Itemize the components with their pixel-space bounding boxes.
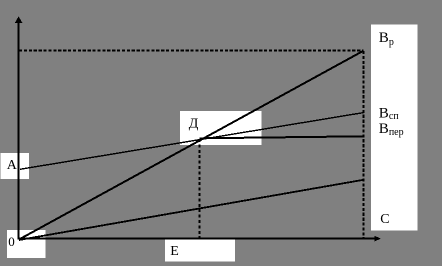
dashed guide vertical at D down to E	[198, 139, 200, 238]
y-axis arrowhead	[15, 16, 22, 23]
line Bsp (total cost) from A through D	[20, 113, 364, 170]
x-axis	[19, 238, 376, 240]
legend box right (white)	[371, 25, 417, 231]
line C (variable cost) from origin	[19, 180, 364, 240]
label box E (white)	[165, 239, 235, 262]
svg-text:Е: Е	[170, 244, 179, 259]
svg-text:0: 0	[8, 234, 15, 249]
line Bper (horizontal from D)	[200, 136, 364, 138]
svg-text:А: А	[7, 158, 18, 173]
dashed guide horizontal at Bp level	[19, 50, 364, 52]
x-axis arrowhead	[375, 236, 381, 241]
label box 0 (white)	[7, 230, 46, 258]
line Bp (revenue) from origin to top right	[19, 51, 363, 240]
label box A (white)	[1, 153, 30, 179]
svg-text:С: С	[380, 212, 389, 227]
dashed guide vertical at C	[362, 51, 364, 238]
y-axis	[18, 22, 20, 239]
label box D (white)	[180, 111, 261, 145]
svg-text:Д: Д	[189, 116, 199, 131]
